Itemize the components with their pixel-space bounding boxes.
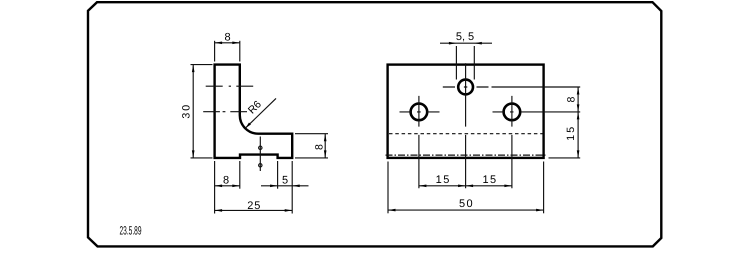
dim 5 bottom: extension lines — [277, 161, 279, 189]
dim 15 right text — [565, 125, 577, 141]
svg-text:15: 15 — [436, 174, 451, 186]
hole right — [504, 104, 521, 121]
svg-text:8: 8 — [313, 144, 325, 150]
hole center (top middle) — [458, 80, 473, 95]
hidden line (step edge) — [389, 133, 543, 135]
dim 8 bottom: extension lines — [214, 161, 216, 214]
svg-text:5: 5 — [282, 175, 288, 187]
dim 50: extension lines — [387, 162, 389, 214]
dim 8 right text — [565, 96, 577, 102]
dim 8 bottom: text — [223, 174, 229, 186]
dim 15 left text — [436, 174, 451, 186]
svg-text:8: 8 — [223, 174, 229, 186]
dim 15 15 bottom: dimension line — [419, 185, 512, 187]
vertical centerline right hole — [511, 96, 513, 188]
R6 text — [246, 98, 264, 116]
notch depth indicator line — [259, 137, 261, 172]
extension line bottom right — [549, 157, 581, 159]
dim line right side (8 and 15) — [577, 87, 579, 158]
hole left — [411, 104, 428, 121]
svg-text:30: 30 — [180, 103, 192, 119]
dim 30 left: dimension line — [192, 65, 194, 158]
dim 15 right text — [482, 174, 497, 186]
dim 8 right of left view: dimension line — [324, 134, 326, 158]
vertical centerline left hole — [418, 96, 420, 188]
svg-text:8: 8 — [225, 31, 231, 43]
horizontal centerline middle hole — [443, 86, 489, 88]
centerline upper (left view) — [206, 85, 254, 87]
dim 8 right of left view: text — [313, 144, 325, 150]
svg-text:25: 25 — [247, 200, 261, 212]
dim 5,5: dimension line with outside arrows — [440, 42, 492, 44]
chain line near bottom edge — [386, 154, 546, 156]
extension line (8 dim) from middle hole row — [492, 86, 581, 88]
date text 23.5.89 — [119, 224, 141, 238]
dim 30 left: text — [180, 103, 192, 119]
dim 50: dimension line — [388, 209, 544, 211]
horizontal centerline left hole — [400, 111, 440, 113]
centerline lower (left view) — [203, 111, 247, 113]
svg-text:15: 15 — [565, 125, 577, 141]
border frame — [88, 2, 661, 246]
vertical centerline middle hole — [465, 63, 467, 188]
dim 8 top: text — [225, 31, 231, 43]
svg-text:15: 15 — [482, 174, 497, 186]
notch indicator circle lower — [259, 164, 262, 167]
horizontal centerline right hole — [493, 111, 581, 113]
dim 5 bottom: text — [282, 175, 288, 187]
dim 8 bottom: dimension line — [215, 185, 240, 187]
svg-text:8: 8 — [565, 96, 577, 102]
plate outline (right view) — [388, 65, 544, 158]
dim 5,5: text — [456, 31, 474, 43]
svg-text:23.5.89: 23.5.89 — [119, 224, 141, 238]
dim 25: text — [247, 200, 261, 212]
dim 30 left: extension lines — [191, 64, 213, 66]
dim 8 top: extension lines — [214, 41, 216, 62]
dim 8 top: dimension line — [215, 42, 240, 44]
R6 leader — [246, 98, 276, 128]
svg-text:5, 5: 5, 5 — [456, 31, 474, 43]
dim 8 right of left view: extension lines — [295, 133, 328, 135]
dim 50: text — [459, 198, 474, 210]
dim 5 bottom: dimension line with outside arrows — [261, 185, 309, 187]
dim 25: dimension line — [215, 209, 293, 211]
svg-text:50: 50 — [459, 198, 474, 210]
L-bracket outline (left view) — [215, 65, 293, 158]
dim 5,5: extension lines — [455, 46, 457, 80]
notch indicator circle upper — [259, 146, 262, 149]
